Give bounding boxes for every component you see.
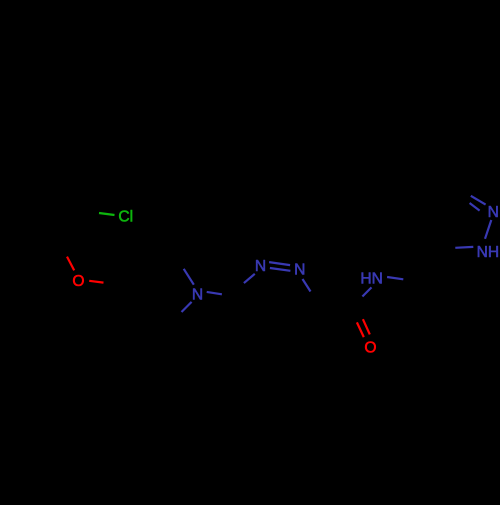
bond Npip-C6 pyridazine (nitrogen half, right) (207, 292, 222, 294)
double bond N1=N2 lower line (270, 268, 291, 271)
svg-text:O: O (364, 340, 376, 357)
bond N1-C6 pyridazine (nitrogen half, lower left) (244, 274, 255, 283)
svg-text:N: N (488, 204, 499, 221)
svg-text:N: N (294, 262, 305, 279)
double bond C=O carbonyl left line (oxygen half) (357, 322, 364, 337)
double bond C3=N2 pyrazole upper line (nitrogen half) (471, 196, 486, 205)
bond N1-C6 piperidine (nitrogen half, lower left) (182, 302, 192, 312)
svg-text:HN: HN (360, 271, 383, 288)
svg-text:O: O (72, 273, 84, 290)
bond N1-C5 pyrazole (nitrogen half, left) (455, 246, 473, 249)
bond Namide-CH2 (nitrogen half, right) (387, 277, 403, 279)
bond N2-C3 pyridazine (nitrogen half, lower right) (303, 279, 311, 292)
bond O-C4 piperidine (oxygen half) (89, 281, 103, 283)
double bond C=O carbonyl right line (oxygen half) (363, 319, 370, 334)
svg-text:NH: NH (477, 244, 500, 261)
bond C2-Cl (chlorine half) (99, 213, 115, 215)
bond Namide-C(carbonyl) (nitrogen half, lower left) (362, 287, 371, 296)
double bond C3=N2 pyrazole lower line (nitrogen half) (470, 203, 480, 211)
double bond N1=N2 upper line (269, 262, 290, 265)
bond N2-N1 pyrazole (full) (485, 220, 491, 239)
svg-text:N: N (192, 286, 203, 303)
bond N1-C2 piperidine (nitrogen half, upper left) (184, 269, 194, 285)
bond C1-O ether (oxygen half) (67, 257, 74, 271)
svg-text:N: N (255, 258, 266, 275)
svg-text:Cl: Cl (118, 209, 133, 226)
